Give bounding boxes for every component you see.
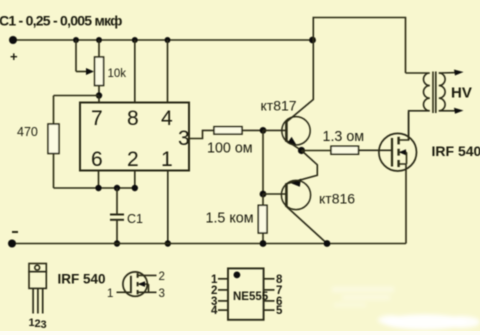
wire: pot bottom lead bbox=[98, 86, 100, 96]
IC U1 pin 1 index dot bbox=[234, 272, 241, 279]
package: IRF540 TO-220 body bbox=[29, 272, 46, 289]
svg-text:1: 1 bbox=[161, 148, 173, 171]
svg-text:IRF 540: IRF 540 bbox=[58, 272, 106, 287]
svg-text:кт817: кт817 bbox=[261, 98, 297, 114]
wire: secondary top output bbox=[439, 72, 458, 74]
svg-text:4: 4 bbox=[211, 305, 218, 317]
wire: pin 3 output jog bbox=[189, 130, 214, 138]
svg-text:NE555: NE555 bbox=[233, 291, 269, 303]
transistor Q3 body arrow line bbox=[400, 151, 407, 153]
node: emitter coupling junction bbox=[298, 147, 305, 154]
node: R4 ground junction bbox=[260, 240, 267, 247]
svg-text:3: 3 bbox=[159, 288, 165, 300]
wire: emitters to gate resistor bbox=[302, 150, 332, 152]
package: IRF540 TO-220 mounting hole bbox=[35, 265, 40, 270]
wire: emitter coupling to KT816 emitter bbox=[286, 151, 317, 184]
wire: R3 to base node bbox=[242, 129, 263, 131]
potentiometer R1 10k body bbox=[95, 57, 104, 86]
svg-text:7: 7 bbox=[91, 107, 103, 130]
wire: R4 bottom lead bbox=[262, 233, 264, 244]
node: C1 top junction bbox=[114, 185, 120, 191]
wire: R5 to MOSFET gate bbox=[359, 149, 393, 151]
wire: DIP pin 8 stub bbox=[264, 278, 275, 280]
watermark remnant: white blur bottom right bbox=[378, 315, 480, 330]
wire: pot top lead bbox=[98, 40, 100, 57]
svg-text:5: 5 bbox=[276, 305, 283, 317]
transformer T1 primary winding bbox=[406, 73, 430, 140]
wire: pin 4 lead bbox=[167, 40, 169, 103]
transistor Q1 KT817 base bar bbox=[285, 121, 288, 142]
symbol: channel segment top bbox=[137, 273, 139, 278]
transistor Q1 KT817 body circle bbox=[282, 117, 310, 145]
wire: lower bus to pins 6 and 2 bbox=[54, 187, 135, 189]
svg-text:1: 1 bbox=[107, 288, 113, 300]
package: IRF540 leg 2 bbox=[37, 288, 39, 313]
wire: symbol source lead bbox=[138, 291, 157, 293]
node: pot wiper junction to pin 7 bbox=[96, 92, 102, 98]
svg-text:HV: HV bbox=[451, 85, 472, 102]
wire: DIP pin 2 stub bbox=[218, 289, 228, 291]
watermark remnant: faint streaks bbox=[332, 287, 394, 307]
svg-text:10k: 10k bbox=[108, 68, 127, 80]
wire: DIP pin 1 stub bbox=[218, 278, 228, 280]
svg-text:С1 - 0,25 - 0,005 мкф: С1 - 0,25 - 0,005 мкф bbox=[0, 13, 122, 29]
wire: pin 8 lead bbox=[134, 40, 136, 103]
wire: C1 bottom lead bbox=[116, 220, 118, 244]
transformer T1 core line right bbox=[435, 72, 437, 114]
node: pin 1 ground junction bbox=[165, 240, 171, 246]
wire: symbol gate lead bbox=[117, 291, 131, 293]
symbol: body arrow head bbox=[138, 281, 145, 287]
transformer T1 core line left bbox=[432, 72, 434, 114]
transistor Q3 channel segment middle bbox=[397, 149, 399, 156]
node: junction rail to pin 4 bbox=[165, 37, 171, 43]
wire: top positive rail bbox=[13, 39, 313, 41]
svg-text:+: + bbox=[10, 49, 18, 64]
wire: symbol drain lead bbox=[138, 274, 157, 276]
node: junction rail to pot wiper feed bbox=[73, 37, 79, 43]
symbol: channel segment bottom bbox=[137, 290, 139, 294]
wire: DIP pin 6 stub bbox=[264, 300, 275, 302]
wire: R2 bottom to lower bus bbox=[53, 154, 55, 189]
wire: junction to left branch bbox=[54, 95, 100, 97]
svg-text:1.5 ком: 1.5 ком bbox=[206, 211, 254, 227]
wire: pin 6 lead bbox=[98, 171, 100, 189]
wire: symbol body tie bbox=[148, 284, 150, 292]
node: KT816 base junction bbox=[260, 191, 267, 198]
arrow: secondary bottom output bbox=[454, 108, 464, 114]
wire: C1 top lead bbox=[116, 188, 118, 215]
transformer T1 secondary winding bbox=[439, 73, 445, 111]
wire: pin 2 lead bbox=[134, 171, 136, 189]
wire: Q1 emitter bbox=[286, 141, 301, 151]
wire: Q3 source lead bbox=[399, 164, 406, 244]
svg-text:кт816: кт816 bbox=[319, 191, 355, 207]
IC U1 NE555 DIP body bbox=[228, 268, 264, 319]
svg-text:С1: С1 bbox=[127, 212, 143, 226]
wire: DIP pin 7 stub bbox=[264, 289, 275, 291]
node: pin 2 junction bbox=[132, 185, 138, 191]
wire: base node down to KT816 base node bbox=[262, 130, 264, 194]
svg-text:3: 3 bbox=[178, 127, 190, 150]
node: pin 6 junction bbox=[95, 185, 101, 191]
capacitor C1 bottom plate bbox=[110, 219, 124, 221]
wire: Q2 base lead bbox=[263, 193, 286, 195]
svg-text:3: 3 bbox=[41, 319, 47, 331]
wire: pot wiper feed horizontal bbox=[76, 71, 87, 73]
svg-text:100 ом: 100 ом bbox=[207, 141, 253, 157]
wire: left branch down to R2 bbox=[53, 96, 55, 125]
wire: Q2 collector to ground rail bbox=[286, 207, 327, 244]
node: rail left negative terminal bbox=[8, 240, 16, 248]
resistor R2 470 body bbox=[48, 124, 59, 154]
resistor R4 1.5 kom body bbox=[258, 205, 267, 233]
wire: Q1 collector to top riser bbox=[286, 18, 405, 123]
wire: pin 1 lead to ground rail bbox=[167, 171, 169, 244]
wire: DIP pin 3 stub bbox=[218, 300, 228, 302]
node: Q2 collector ground junction bbox=[324, 240, 331, 247]
node: KT817 base junction bbox=[260, 127, 267, 134]
power symbol: minus terminal bbox=[12, 231, 18, 233]
transistor Q3 IRF540 body circle bbox=[379, 133, 417, 171]
transistor Q1 emitter arrow bbox=[288, 137, 297, 145]
resistor R5 1.3 om body bbox=[331, 146, 359, 154]
transistor Q2 KT816 body circle bbox=[281, 180, 310, 209]
wire: secondary bottom output bbox=[439, 110, 458, 112]
svg-text:2: 2 bbox=[127, 148, 139, 171]
package: IRF540 TO-220 tab bbox=[29, 264, 46, 272]
svg-text:470: 470 bbox=[17, 125, 38, 139]
wire: Q1 base lead bbox=[263, 129, 286, 131]
transistor Q3 body arrow head bbox=[399, 149, 406, 155]
symbol: channel segment middle bbox=[137, 282, 139, 286]
symbol: body arrow line bbox=[139, 283, 149, 285]
wire: Q3 body tie to source bbox=[406, 152, 408, 164]
symbol: gate bar bbox=[130, 276, 132, 293]
wire: DIP pin 5 stub bbox=[264, 309, 275, 311]
svg-text:1.3 ом: 1.3 ом bbox=[323, 129, 365, 145]
symbol: small MOSFET circle bbox=[123, 272, 147, 296]
transistor Q3 gate bar bbox=[391, 138, 393, 167]
node: rail left terminal bbox=[9, 36, 17, 44]
transistor Q3 channel segment top bbox=[397, 137, 399, 145]
transistor Q2 KT816 base bar bbox=[285, 183, 288, 207]
svg-text:4: 4 bbox=[161, 107, 173, 130]
svg-text:2: 2 bbox=[159, 271, 165, 283]
wire: pin 7 lead bbox=[98, 96, 100, 103]
capacitor C1 top plate bbox=[110, 214, 124, 216]
transistor Q3 channel segment bottom bbox=[397, 160, 399, 167]
transistor Q2 KT816 emitter arrow bbox=[291, 179, 301, 187]
node: junction rail to KT817 collector riser bbox=[309, 37, 316, 44]
wire: DIP pin 4 stub bbox=[218, 309, 228, 311]
node: C1 ground junction bbox=[114, 240, 120, 246]
node: junction rail to pot top bbox=[96, 37, 102, 43]
wire: Q3 drain lead bbox=[399, 112, 409, 140]
resistor R3 100 om body bbox=[214, 127, 242, 134]
wire: pot wiper feed down bbox=[75, 40, 77, 72]
svg-text:IRF 540: IRF 540 bbox=[432, 143, 480, 159]
node: junction rail to pin 8 bbox=[132, 37, 138, 43]
pot wiper arrow bbox=[86, 68, 94, 75]
wire: KT816 base node to R4 bbox=[262, 194, 264, 205]
package: IRF540 leg 1 bbox=[32, 288, 34, 313]
op-amp U1 timer 555 box bbox=[80, 103, 189, 171]
arrow: secondary top output bbox=[454, 70, 464, 76]
package: IRF540 leg 3 bbox=[42, 288, 44, 313]
svg-text:8: 8 bbox=[127, 107, 139, 130]
wire: bottom negative rail bbox=[12, 243, 406, 245]
white bottom edge strip bbox=[0, 331, 480, 335]
svg-text:6: 6 bbox=[91, 148, 103, 171]
